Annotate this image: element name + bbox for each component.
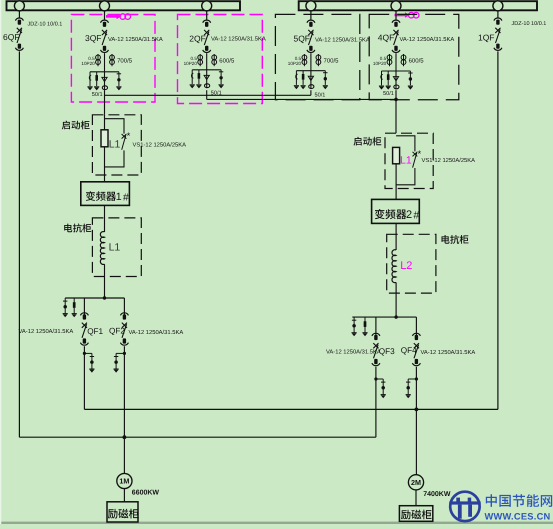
CT pair right of 2QF xyxy=(212,54,217,66)
label CT class 5QF xyxy=(288,56,302,66)
svg-text:2: 2 xyxy=(406,209,412,221)
svg-text:1M: 1M xyxy=(119,477,129,486)
wire below QF4 xyxy=(415,367,417,475)
label 启动柜 1 xyxy=(62,121,90,130)
arrester stub A right xyxy=(352,317,357,336)
bypass switch loop (starter 1) xyxy=(105,119,125,167)
svg-text:10P20: 10P20 xyxy=(81,61,95,66)
svg-text:1: 1 xyxy=(116,191,122,203)
QF1 side stub xyxy=(84,353,94,372)
wire 2M to excitation 2 xyxy=(415,490,417,506)
arrester stub B left xyxy=(72,298,77,317)
converter box 变频器1# xyxy=(81,182,130,206)
wire QF2 drop xyxy=(123,298,125,315)
PT-arrester group 2QF xyxy=(190,70,224,89)
label 50/1 4QF xyxy=(383,90,394,97)
label 励磁柜 1 xyxy=(108,509,139,519)
node on left bus for 2QF xyxy=(202,1,212,11)
wire junction header left xyxy=(65,297,124,299)
label VS1-12 1250A/25KA (starter 1) xyxy=(133,141,187,148)
svg-text:7400KW: 7400KW xyxy=(423,491,451,498)
label CT class 2QF xyxy=(184,56,198,66)
svg-text:VS1-12 1250A/25KA: VS1-12 1250A/25KA xyxy=(422,157,476,164)
CT pair left of 2QF xyxy=(198,54,203,66)
label 变频器1 # xyxy=(86,191,129,203)
wire 4QF below breaker xyxy=(395,53,397,71)
junction dot right header xyxy=(394,315,397,318)
label L1 (reactor 1) xyxy=(109,242,121,254)
wire 6QF drop xyxy=(18,11,20,18)
label 6QF xyxy=(3,32,20,42)
junction dot QF4 stub xyxy=(415,377,418,380)
wire resistor 2 to converter 2 xyxy=(395,164,397,200)
watermark 中国节能网 xyxy=(486,494,552,507)
QF4 side stub xyxy=(406,379,417,398)
label QF4 xyxy=(401,346,417,355)
label CT ratio 4QF xyxy=(409,58,425,65)
svg-text:50/1: 50/1 xyxy=(315,91,326,98)
CT pair left of 5QF xyxy=(302,54,307,66)
wire 5QF down to tie xyxy=(310,90,312,95)
junction 4QF tie xyxy=(394,98,398,102)
wire resistor to converter 1 xyxy=(104,147,106,182)
resistor L1 (starter 2) xyxy=(393,147,400,163)
wire reactor 1 down xyxy=(104,264,106,298)
svg-text:L1: L1 xyxy=(400,155,412,167)
cabinet 启动柜 2 (dashed box) xyxy=(385,133,433,188)
CT marker (magenta) right bus xyxy=(395,12,420,18)
svg-text:VA-12 1250A/31.5KA: VA-12 1250A/31.5KA xyxy=(211,36,266,43)
svg-text:VA-12 1250A/31.5KA: VA-12 1250A/31.5KA xyxy=(326,348,381,355)
wire tie 2QF-4QF xyxy=(207,98,396,100)
svg-text:700/5: 700/5 xyxy=(324,58,340,65)
watermark WWW.CES.CN xyxy=(485,511,551,521)
junction dot bus A at QF4 xyxy=(415,408,419,412)
reactor cabinet 电抗柜 2 (dashed box) xyxy=(387,234,436,293)
svg-text:600/5: 600/5 xyxy=(409,58,425,65)
cubicle outline 2QF (magenta dashed) xyxy=(178,15,263,104)
breaker 4QF xyxy=(392,20,400,52)
svg-text:JDZ-10 10/0.1: JDZ-10 10/0.1 xyxy=(28,22,63,28)
reactor cabinet 电抗柜 1 (dashed box) xyxy=(92,218,141,277)
wire 4QF junction down xyxy=(395,90,397,133)
svg-text:6600KW: 6600KW xyxy=(132,489,160,496)
wire 4QF drop xyxy=(395,11,397,20)
wire junction header right xyxy=(352,316,416,318)
wire 1QF drop xyxy=(497,11,499,18)
wire 2QF below breaker xyxy=(206,53,208,70)
cubicle outline 5QF (black dashed) xyxy=(275,14,359,99)
wire 3QF below breaker xyxy=(104,53,106,72)
wire 6QF vertical to bottom tie xyxy=(18,51,20,437)
breaker 1QF xyxy=(494,18,502,50)
bus B (6QF - 1M - QF3 tie) xyxy=(19,436,376,438)
label 1QF xyxy=(478,33,495,43)
label 电抗柜 1 xyxy=(64,224,91,233)
label JDZ-10 10/0.1 (1QF) xyxy=(512,21,547,27)
QF2 side stub xyxy=(114,353,125,372)
bottom edge shading xyxy=(0,522,553,524)
bus A (QF1 - QF4 - 1QF tie) xyxy=(84,408,498,410)
svg-text:VA-12 1250A/31.5KA: VA-12 1250A/31.5KA xyxy=(400,36,455,43)
label 7400KW xyxy=(423,491,451,498)
svg-text:VA-12 1250A/31.5KA: VA-12 1250A/31.5KA xyxy=(108,36,163,43)
breaker QF2 xyxy=(120,313,128,345)
left busbar xyxy=(7,1,241,10)
wire into starter 1 xyxy=(104,115,106,131)
svg-text:600/5: 600/5 xyxy=(219,58,235,65)
label 变频器2 # xyxy=(375,209,420,221)
CT pair right of 3QF xyxy=(110,54,115,66)
label 50/1 2QF xyxy=(211,90,222,97)
motor 2M xyxy=(408,475,423,490)
svg-text:*: * xyxy=(127,131,131,142)
label rating 2QF xyxy=(211,36,266,43)
label L1 (starter 2, magenta) xyxy=(400,155,412,167)
watermark logo ring xyxy=(450,492,479,521)
wire converter 1 to reactor 1 xyxy=(104,205,106,232)
wire 3QF junction down xyxy=(104,90,106,115)
label rating QF1 xyxy=(19,328,74,335)
wire below QF2 xyxy=(123,346,125,474)
node on left bus for 6QF xyxy=(14,1,24,11)
label 5QF xyxy=(293,34,310,44)
svg-text:VS1-12 1250A/25KA: VS1-12 1250A/25KA xyxy=(133,141,187,148)
junction dot left header xyxy=(103,296,106,299)
reactor coil L1 xyxy=(100,232,104,265)
svg-text:JDZ-10 10/0.1: JDZ-10 10/0.1 xyxy=(512,21,547,27)
svg-text:QF4: QF4 xyxy=(401,346,417,355)
label 2QF xyxy=(189,34,206,44)
svg-text:#: # xyxy=(123,192,129,203)
wire below QF3 xyxy=(375,367,377,438)
label rating 3QF xyxy=(108,36,163,43)
excitation box 励磁柜 2 xyxy=(399,506,432,522)
label 4QF xyxy=(378,33,395,43)
label L1 (starter 1) xyxy=(109,138,121,150)
junction dot QF1 stub xyxy=(83,352,86,355)
svg-text:2M: 2M xyxy=(411,478,421,487)
node on right bus for 1QF xyxy=(493,1,503,11)
CT pair right of 5QF xyxy=(316,54,321,66)
junction dot QF2 stub xyxy=(123,352,126,355)
asterisk (starter 2) xyxy=(418,149,422,160)
bypass switch loop (starter 2) xyxy=(396,136,415,185)
label rating 5QF xyxy=(315,37,370,44)
label CT ratio 2QF xyxy=(219,58,235,65)
breaker 5QF xyxy=(307,20,315,52)
watermark logo glyph xyxy=(449,498,480,519)
label JDZ-10 10/0.1 (6QF) xyxy=(28,22,63,28)
wire QF1 drop xyxy=(83,298,85,315)
svg-text:5QF: 5QF xyxy=(293,34,310,44)
node on right bus for 4QF xyxy=(391,1,401,11)
label VS1-12 1250A/25KA (starter 2) xyxy=(422,157,476,164)
svg-text:VA-12 1250A/31.5KA: VA-12 1250A/31.5KA xyxy=(19,328,74,335)
label 50/1 5QF xyxy=(315,91,326,98)
asterisk (starter 1) xyxy=(127,131,131,142)
svg-text:6QF: 6QF xyxy=(3,32,20,42)
svg-text:VA-12 1250A/31.5KA: VA-12 1250A/31.5KA xyxy=(421,349,476,356)
wire 5QF through PT group xyxy=(310,71,312,89)
label CT ratio 3QF xyxy=(117,58,133,65)
PT-arrester group 5QF xyxy=(294,71,328,90)
wire 3QF through PT group xyxy=(104,72,106,90)
arrester stub A left xyxy=(63,298,68,317)
svg-text:QF1: QF1 xyxy=(87,327,103,336)
breaker QF3 xyxy=(372,333,380,365)
label 6600KW xyxy=(132,489,160,496)
svg-text:L2: L2 xyxy=(400,260,412,272)
CT pair right of 4QF xyxy=(401,54,406,66)
vacuum switch VS1 (starter 1) xyxy=(122,134,127,150)
svg-text:700/5: 700/5 xyxy=(117,58,133,65)
label QF1 xyxy=(87,327,103,336)
wire tie 3QF-5QF xyxy=(105,94,311,96)
wire 5QF below breaker xyxy=(310,53,312,70)
wire 3QF drop xyxy=(104,11,106,20)
wire 1QF vertical to bus A xyxy=(497,51,499,409)
CT pair left of 3QF xyxy=(96,54,101,66)
svg-text:L1: L1 xyxy=(109,242,121,254)
svg-text:#: # xyxy=(413,210,419,221)
arrester stub B right xyxy=(362,317,367,336)
wire 2QF through PT group xyxy=(206,70,208,88)
wire converter 2 to reactor 2 xyxy=(395,223,397,250)
svg-text:QF2: QF2 xyxy=(109,326,125,335)
svg-text:VA-12 1250A/31.5KA: VA-12 1250A/31.5KA xyxy=(315,37,370,44)
breaker QF4 xyxy=(412,333,420,365)
cabinet 启动柜 1 (dashed box) xyxy=(92,115,141,175)
svg-text:50/1: 50/1 xyxy=(383,90,394,97)
node on right bus for 5QF xyxy=(306,1,316,11)
breaker 3QF xyxy=(101,20,109,52)
CT pair left of 4QF xyxy=(387,54,392,66)
right busbar xyxy=(299,1,537,10)
svg-text:3QF: 3QF xyxy=(85,33,102,43)
svg-text:VA-12 1250A/31.5KA: VA-12 1250A/31.5KA xyxy=(129,329,184,336)
junction dot QF3 stub xyxy=(374,377,377,380)
label 3QF xyxy=(85,33,102,43)
svg-text:10P20: 10P20 xyxy=(288,61,302,66)
junction dot bus B at 1M line xyxy=(123,435,127,439)
svg-text:1QF: 1QF xyxy=(478,33,495,43)
wire 1M to excitation 1 xyxy=(123,488,125,502)
breaker 6QF xyxy=(15,18,23,50)
label CT class 3QF xyxy=(81,56,95,66)
wire 2QF down to tie xyxy=(206,90,208,99)
svg-text:WWW.CES.CN: WWW.CES.CN xyxy=(485,511,551,521)
label 50/1 3QF xyxy=(92,91,103,98)
QF3 side stub xyxy=(376,379,386,398)
svg-text:50/1: 50/1 xyxy=(92,91,103,98)
wire below QF1 xyxy=(83,346,85,409)
label CT class 4QF xyxy=(373,56,387,66)
node on left bus for 3QF xyxy=(100,1,110,11)
svg-text:QF3: QF3 xyxy=(379,347,395,356)
resistor L1 (starter 1) xyxy=(101,130,108,147)
CT marker (magenta) left bus xyxy=(106,14,131,20)
breaker 2QF xyxy=(203,20,211,52)
excitation box 励磁柜 1 xyxy=(107,502,138,522)
PT-arrester group 4QF xyxy=(379,71,413,90)
svg-text:2QF: 2QF xyxy=(189,34,206,44)
label QF2 xyxy=(109,326,125,335)
svg-text:10P20: 10P20 xyxy=(373,61,387,66)
label L2 (reactor 2, magenta) xyxy=(400,260,412,272)
wire QF3 drop xyxy=(375,317,377,335)
wire QF4 drop xyxy=(415,317,417,335)
label CT ratio 5QF xyxy=(324,58,340,65)
label rating QF2 xyxy=(129,329,184,336)
label 电抗柜 2 xyxy=(442,235,469,244)
breaker QF1 xyxy=(80,313,88,345)
wire 2QF drop xyxy=(206,11,208,20)
label rating QF3 xyxy=(326,348,381,355)
label rating QF4 xyxy=(421,349,476,356)
label 励磁柜 2 xyxy=(401,510,432,520)
vacuum switch VS1 (starter 2) xyxy=(413,152,418,168)
motor 1M xyxy=(117,473,132,488)
cubicle outline 3QF (magenta dashed) xyxy=(71,15,155,103)
cubicle outline 4QF (black dashed) xyxy=(369,14,459,99)
reactor coil L2 xyxy=(392,250,396,283)
label 启动柜 2 xyxy=(354,137,382,146)
wire 5QF drop xyxy=(310,11,312,20)
label QF3 xyxy=(379,347,395,356)
converter box 变频器2# xyxy=(372,199,420,223)
svg-text:4QF: 4QF xyxy=(378,33,395,43)
svg-text:L1: L1 xyxy=(109,138,121,150)
PT-arrester group 3QF xyxy=(87,72,121,91)
wire 4QF through PT group xyxy=(395,71,397,89)
svg-text:10P20: 10P20 xyxy=(184,61,198,66)
label rating 4QF xyxy=(400,36,455,43)
wire reactor 2 down xyxy=(395,282,397,317)
